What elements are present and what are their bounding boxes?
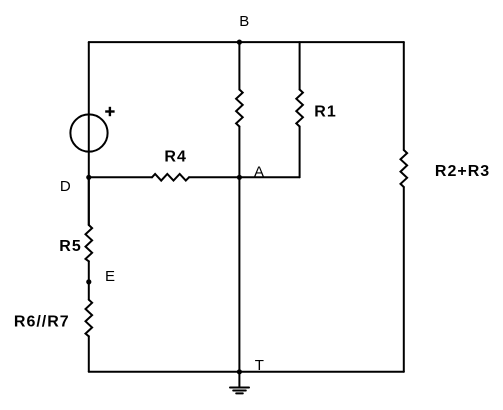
- resistor R5: [86, 225, 93, 261]
- wire top to R1: [299, 42, 301, 89]
- voltage source plus sign: [105, 107, 114, 116]
- wire right rail lower: [403, 187, 405, 372]
- wire R5 to E: [88, 261, 90, 299]
- svg-text:T: T: [255, 357, 264, 374]
- wire R4 to A to R1 foot: [189, 176, 300, 178]
- wire D to R4: [89, 176, 152, 178]
- voltage source V1 circle: [70, 114, 107, 151]
- node dot E: [86, 279, 91, 284]
- wire left rail top (through source): [88, 42, 90, 225]
- wire top rail B: [89, 41, 404, 43]
- ground stub: [238, 372, 240, 388]
- svg-text:R1: R1: [314, 103, 336, 120]
- node dot A: [237, 175, 242, 180]
- svg-text:E: E: [105, 268, 115, 285]
- svg-text:A: A: [254, 163, 264, 180]
- svg-text:R5: R5: [59, 238, 81, 255]
- wire R6//R7 to bottom: [88, 336, 90, 372]
- resistor R2+R3: [401, 150, 408, 187]
- node dot D: [86, 175, 91, 180]
- svg-text:R4: R4: [164, 148, 186, 165]
- wire A branch down to T: [238, 127, 240, 372]
- wire R1 to node A level: [299, 127, 301, 178]
- wire B down to resistor: [238, 42, 240, 89]
- ground bars: [230, 387, 249, 389]
- svg-text:R6//R7: R6//R7: [14, 314, 70, 331]
- resistor B-A branch: [236, 90, 243, 127]
- wire right rail upper: [403, 42, 405, 150]
- node dot T: [237, 369, 242, 374]
- wire bottom rail: [89, 371, 404, 373]
- svg-text:B: B: [239, 13, 249, 30]
- resistor R6//R7: [86, 300, 93, 337]
- node dot B: [237, 40, 242, 45]
- svg-text:R2+R3: R2+R3: [435, 163, 490, 180]
- svg-text:D: D: [60, 178, 71, 195]
- resistor R4: [152, 174, 189, 181]
- wire D to R5: [88, 177, 90, 225]
- resistor R1: [296, 90, 303, 127]
